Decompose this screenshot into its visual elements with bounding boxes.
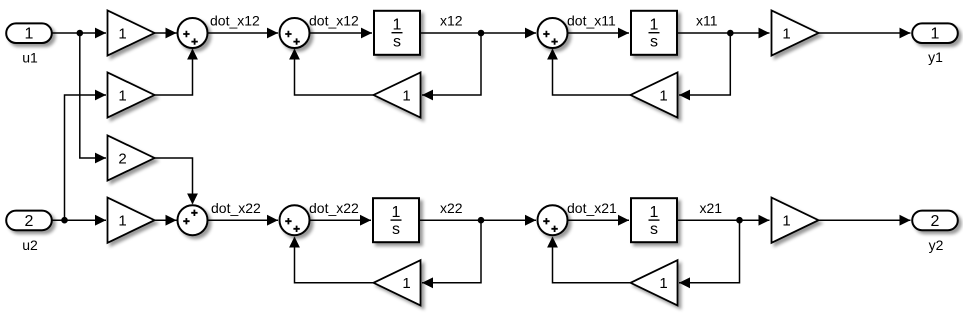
- wire Sum4 to Sum5: [208, 215, 278, 226]
- svg-text:dot_x12: dot_x12: [309, 13, 359, 29]
- wire u2 branch up to Gain2: [65, 90, 107, 221]
- sum Sum4 (plus plus): [178, 205, 208, 235]
- gain Gain3 value 2 (u1->dot_x22): [108, 135, 155, 180]
- integrator 1/s (x21): [631, 198, 677, 242]
- feedback gain Gain10 value 1: [631, 260, 678, 305]
- svg-text:dot_x22: dot_x22: [309, 200, 359, 216]
- output port Out2 (y2): [912, 211, 958, 231]
- svg-text:x12: x12: [440, 13, 463, 29]
- wire Gain8 to Sum5 bottom input: [289, 237, 373, 283]
- feedback gain Gain8 value 1: [374, 260, 421, 305]
- wire Sum6 to Integrator x21: [568, 215, 629, 226]
- sum Sum2 (plus plus): [280, 18, 310, 48]
- svg-text:y1: y1: [928, 49, 943, 65]
- net label dot_x11: [567, 13, 616, 29]
- wire u1 to Gain1: [52, 28, 106, 39]
- wire x21: Integrator to Gain9: [678, 215, 770, 226]
- wire x22: Integrator to Sum6: [420, 215, 537, 226]
- svg-text:1: 1: [650, 17, 659, 34]
- gain Gain4 value 1 (u2->dot_x22): [108, 198, 155, 243]
- svg-text:s: s: [392, 221, 400, 238]
- svg-text:x11: x11: [696, 13, 718, 29]
- svg-text:x21: x21: [700, 200, 723, 216]
- port name y2: [929, 237, 944, 253]
- svg-text:s: s: [650, 221, 658, 238]
- input port In2 (u2): [6, 211, 52, 231]
- svg-text:1: 1: [402, 275, 410, 292]
- svg-text:u2: u2: [22, 237, 38, 253]
- svg-text:1: 1: [118, 213, 126, 230]
- output port Out1 (y1): [912, 23, 958, 43]
- wire Gain3 to Sum4 top input: [155, 158, 198, 205]
- gain Gain2 value 1 (u2->dot_x12): [108, 72, 155, 117]
- wire u1 branch down to Gain3 (value 2): [80, 33, 106, 163]
- gain Gain9 value 1 (x21->y2): [772, 198, 819, 243]
- integrator 1/s (x12): [374, 11, 420, 55]
- svg-text:1: 1: [659, 87, 667, 104]
- junction x22: [478, 217, 485, 224]
- integrator 1/s (x22): [373, 198, 419, 242]
- wire x12: Integrator to Sum3: [421, 28, 537, 39]
- input port In1 (u1): [6, 23, 52, 43]
- svg-text:2: 2: [25, 213, 34, 230]
- port name y1: [928, 49, 943, 65]
- svg-text:1: 1: [402, 87, 410, 104]
- svg-text:2: 2: [118, 150, 126, 167]
- wire x11: Integrator to Gain7: [678, 28, 770, 39]
- wire Gain2 to Sum1 bottom input: [155, 49, 198, 96]
- net label dot_x22 (after Sum4): [211, 200, 261, 216]
- wire Gain10 to Sum6 bottom input: [547, 237, 630, 283]
- svg-text:s: s: [650, 33, 658, 50]
- gain Gain7 value 1 (x11->y1): [772, 10, 819, 55]
- wire Gain1 to Sum1: [155, 28, 177, 39]
- net label x12: [440, 13, 463, 29]
- port name u2: [22, 237, 38, 253]
- junction x11: [727, 30, 734, 37]
- svg-text:1: 1: [650, 204, 659, 221]
- svg-text:1: 1: [393, 17, 402, 34]
- junction on u1 wire: [77, 30, 84, 37]
- wire Gain7 to y1 port: [819, 28, 911, 39]
- svg-text:1: 1: [931, 26, 940, 43]
- svg-text:1: 1: [25, 26, 34, 43]
- svg-text:1: 1: [118, 87, 126, 104]
- svg-text:x22: x22: [440, 200, 463, 216]
- wire Sum3 to Integrator x11: [568, 28, 629, 39]
- feedback gain Gain6 value 1: [631, 72, 678, 117]
- feedback gain Gain5 value 1: [374, 72, 421, 117]
- net label dot_x22 (after Sum5): [309, 200, 359, 216]
- port name u1: [22, 50, 38, 66]
- sum Sum3 (plus plus): [538, 18, 568, 48]
- svg-text:u1: u1: [22, 50, 38, 66]
- svg-text:1: 1: [659, 275, 667, 292]
- sum Sum6 (plus plus): [538, 205, 568, 235]
- wire x12 feedback down-left to Gain5: [422, 33, 481, 100]
- junction x21: [736, 217, 743, 224]
- junction on u2 wire: [61, 217, 68, 224]
- wire Gain5 to Sum2 bottom input: [289, 49, 373, 96]
- svg-text:1: 1: [392, 204, 401, 221]
- wire Sum5 to Integrator x22: [310, 215, 371, 226]
- net label x22: [440, 200, 463, 216]
- wire u2 to Gain4: [52, 215, 106, 226]
- wire Sum1 to Sum2: [208, 28, 278, 39]
- svg-text:1: 1: [782, 213, 790, 230]
- net label dot_x12 (after Sum1): [210, 13, 260, 29]
- svg-text:y2: y2: [929, 237, 944, 253]
- integrator 1/s (x11): [631, 11, 677, 55]
- sum Sum1 (plus plus): [178, 18, 208, 48]
- wire x11 feedback down-left to Gain6: [679, 33, 730, 100]
- net label dot_x12 (after Sum2): [309, 13, 359, 29]
- wire x22 feedback down-left to Gain8: [422, 220, 481, 288]
- gain Gain1 value 1 (u1->dot_x12): [108, 10, 155, 55]
- wire Sum2 to Integrator x12: [310, 28, 372, 39]
- svg-text:dot_x12: dot_x12: [210, 13, 260, 29]
- net label x21: [700, 200, 723, 216]
- wire Gain4 to Sum4: [155, 215, 177, 226]
- net label dot_x21: [567, 200, 617, 216]
- svg-text:1: 1: [118, 25, 126, 42]
- wire Gain6 to Sum3 bottom input: [547, 49, 630, 96]
- svg-text:s: s: [393, 33, 401, 50]
- svg-text:1: 1: [782, 25, 790, 42]
- svg-text:2: 2: [931, 213, 940, 230]
- svg-text:dot_x21: dot_x21: [567, 200, 617, 216]
- junction x12: [478, 30, 485, 37]
- svg-text:dot_x11: dot_x11: [567, 13, 616, 29]
- wire x21 feedback down-left to Gain10: [679, 220, 740, 288]
- sum Sum5 (plus plus): [280, 205, 310, 235]
- net label x11: [696, 13, 718, 29]
- wire Gain9 to y2 port: [819, 215, 911, 226]
- svg-text:dot_x22: dot_x22: [211, 200, 261, 216]
